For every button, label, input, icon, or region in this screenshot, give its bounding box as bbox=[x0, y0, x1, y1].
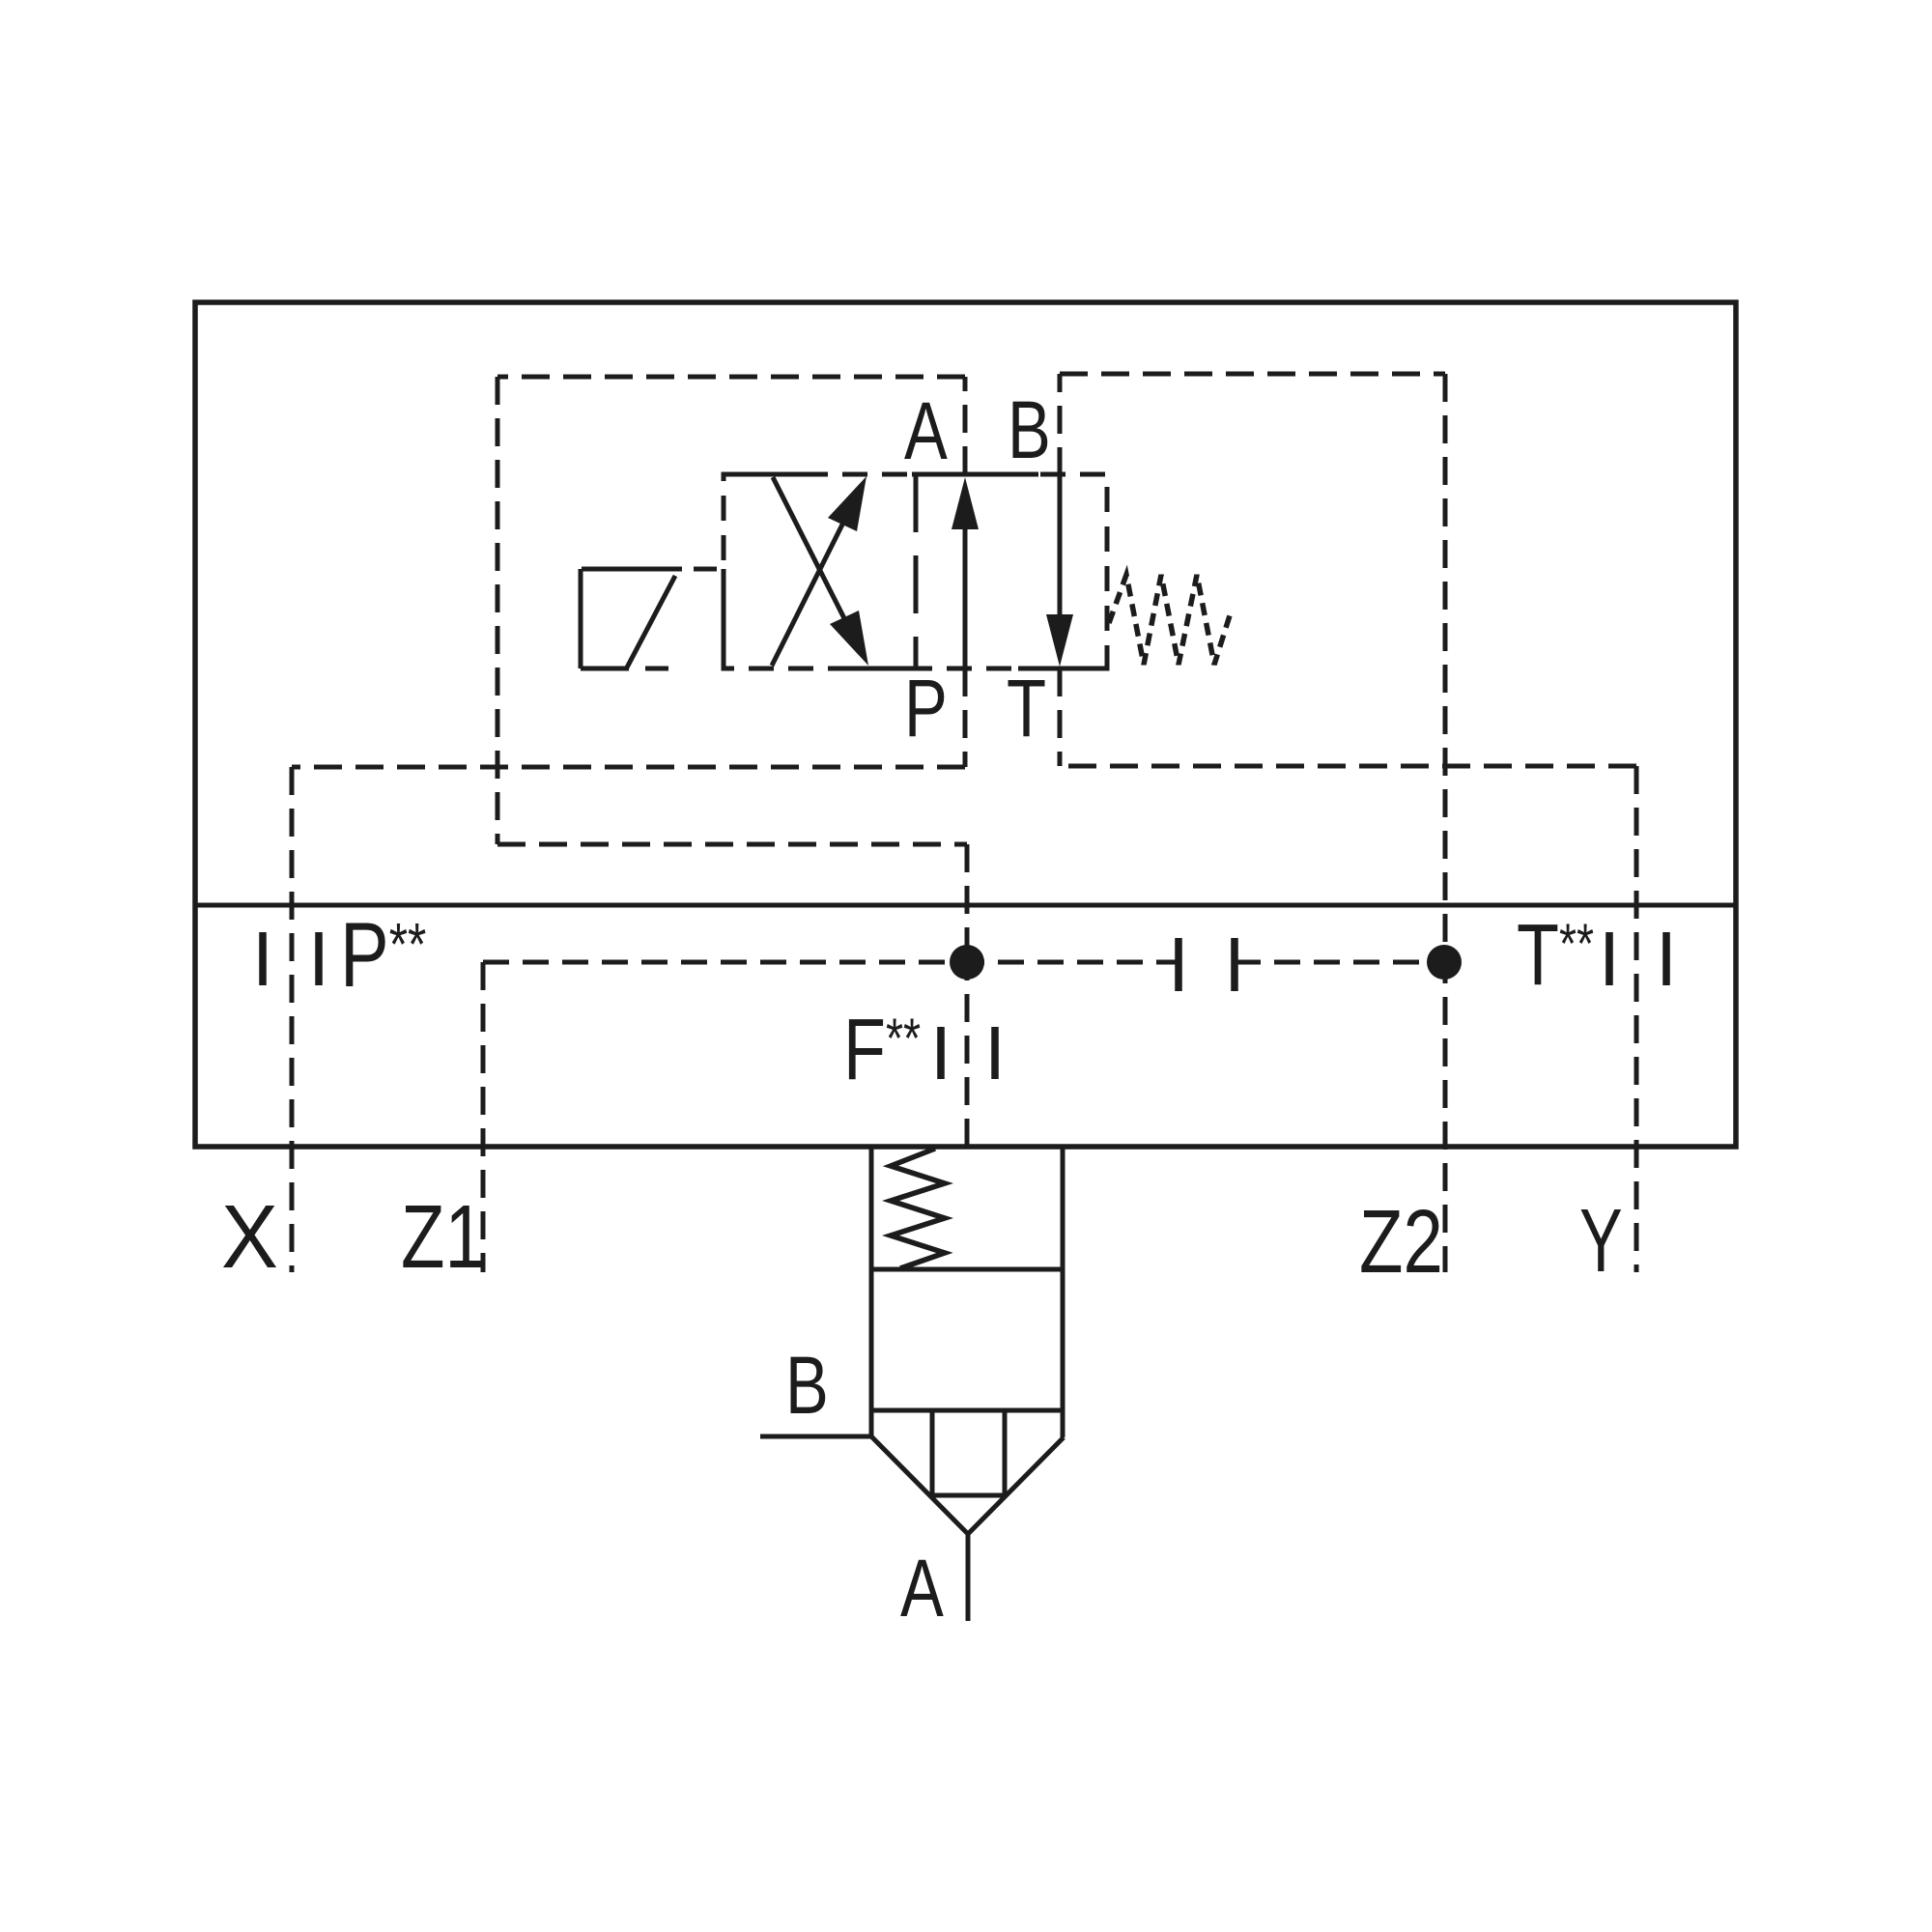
pilot valve body outline (two squares, dashed) bbox=[724, 474, 1107, 668]
port B line bottom bbox=[760, 1435, 871, 1439]
label Z2 bbox=[1359, 1191, 1443, 1292]
pilot line P** to T** (left run to middle plug) bbox=[483, 960, 1179, 965]
label Z1 bbox=[401, 1186, 485, 1287]
svg-text:A: A bbox=[904, 386, 948, 477]
T port drop line bbox=[1058, 668, 1063, 766]
pilot valve left edge solid lower part bbox=[722, 569, 726, 668]
label F** bbox=[843, 1001, 921, 1097]
svg-text:Z2: Z2 bbox=[1359, 1191, 1443, 1292]
label A bottom bbox=[900, 1544, 944, 1634]
svg-text:B: B bbox=[1008, 385, 1051, 476]
svg-text:X: X bbox=[221, 1187, 278, 1288]
pilot valve return spring (dashed zigzag) bbox=[1109, 575, 1231, 665]
solenoid connection dashes bbox=[645, 569, 717, 668]
plug tick left of Y line bbox=[1605, 932, 1613, 985]
label B bottom bbox=[785, 1341, 829, 1432]
plug tick left of X line bbox=[259, 932, 267, 985]
plug tick right of F line bbox=[991, 1027, 999, 1079]
label Y bbox=[1579, 1191, 1623, 1291]
plug tick middle right bbox=[1231, 938, 1238, 991]
svg-text:P: P bbox=[904, 664, 948, 754]
label X bbox=[221, 1187, 278, 1288]
main cartridge spring zigzag bbox=[891, 1149, 945, 1268]
F line from enclosure corner down to block bottom bbox=[965, 844, 970, 962]
pilot valve enclosure (left dashed box) bbox=[963, 377, 968, 474]
pilot valve top edge solid run at ports bbox=[912, 472, 1038, 477]
solenoid symbol bbox=[581, 569, 682, 668]
label T** bbox=[1517, 906, 1594, 1003]
manifold internal horizontal line bbox=[195, 903, 1736, 908]
plug tick right of X line bbox=[315, 932, 323, 985]
poppet V seat bbox=[871, 1436, 1064, 1534]
junction dot T node bbox=[1427, 945, 1462, 980]
pilot valve bottom edge solid runs bbox=[828, 667, 932, 671]
svg-text:T: T bbox=[1007, 664, 1046, 754]
label P** bbox=[340, 904, 426, 1007]
label A top bbox=[904, 386, 948, 477]
drain line T to Y and Y port drop bbox=[1060, 764, 1636, 769]
poppet inner rectangle bbox=[932, 1410, 1005, 1495]
label B top bbox=[1008, 385, 1051, 476]
svg-text:Z1: Z1 bbox=[401, 1186, 485, 1287]
plug tick middle left bbox=[1175, 938, 1182, 991]
port A line bottom bbox=[966, 1534, 971, 1621]
label T bbox=[1007, 664, 1046, 754]
plug tick right of Y line bbox=[1662, 932, 1670, 985]
manifold block outline bbox=[195, 302, 1736, 1147]
svg-text:Y: Y bbox=[1579, 1191, 1623, 1291]
Z2 line (right box right edge down through dot to Z2) bbox=[1443, 374, 1448, 1272]
main cartridge spring chamber box bbox=[871, 1147, 1063, 1437]
label P bbox=[904, 664, 948, 754]
pilot line middle plug to T** dot bbox=[1235, 960, 1444, 965]
plug tick left of F line bbox=[937, 1027, 945, 1079]
Z1 port drop line bbox=[481, 962, 486, 1272]
svg-text:A: A bbox=[900, 1544, 944, 1634]
cover plate enclosure (right dashed box top and left) bbox=[1058, 374, 1063, 475]
P to A straight arrow bbox=[963, 522, 968, 668]
pilot valve centre divider bbox=[914, 474, 919, 668]
crossed arrow line (down-right) bbox=[773, 477, 850, 630]
pilot supply line from P down, left to X, down to X port bbox=[963, 668, 968, 767]
B to T straight arrow bbox=[1058, 474, 1063, 622]
junction dot F node bbox=[950, 945, 984, 980]
svg-text:B: B bbox=[785, 1341, 829, 1432]
crossed arrow line (up-right) bbox=[772, 511, 849, 666]
